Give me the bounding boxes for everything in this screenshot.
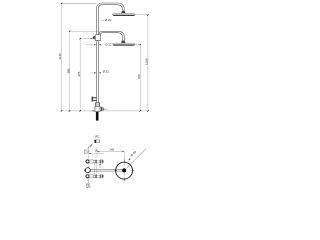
svg-text:890: 890	[66, 68, 70, 73]
svg-text:Ø 22: Ø 22	[105, 43, 112, 47]
svg-text:140: 140	[109, 148, 114, 152]
svg-text:Ø 22: Ø 22	[103, 70, 110, 74]
svg-text:1140: 1140	[58, 53, 62, 60]
svg-text:478: 478	[77, 71, 81, 76]
svg-text:1160: 1160	[145, 58, 149, 65]
svg-text:Ø22: Ø22	[95, 137, 100, 139]
svg-text:Ø 20: Ø 20	[105, 18, 112, 22]
svg-text:760: 760	[137, 74, 141, 79]
